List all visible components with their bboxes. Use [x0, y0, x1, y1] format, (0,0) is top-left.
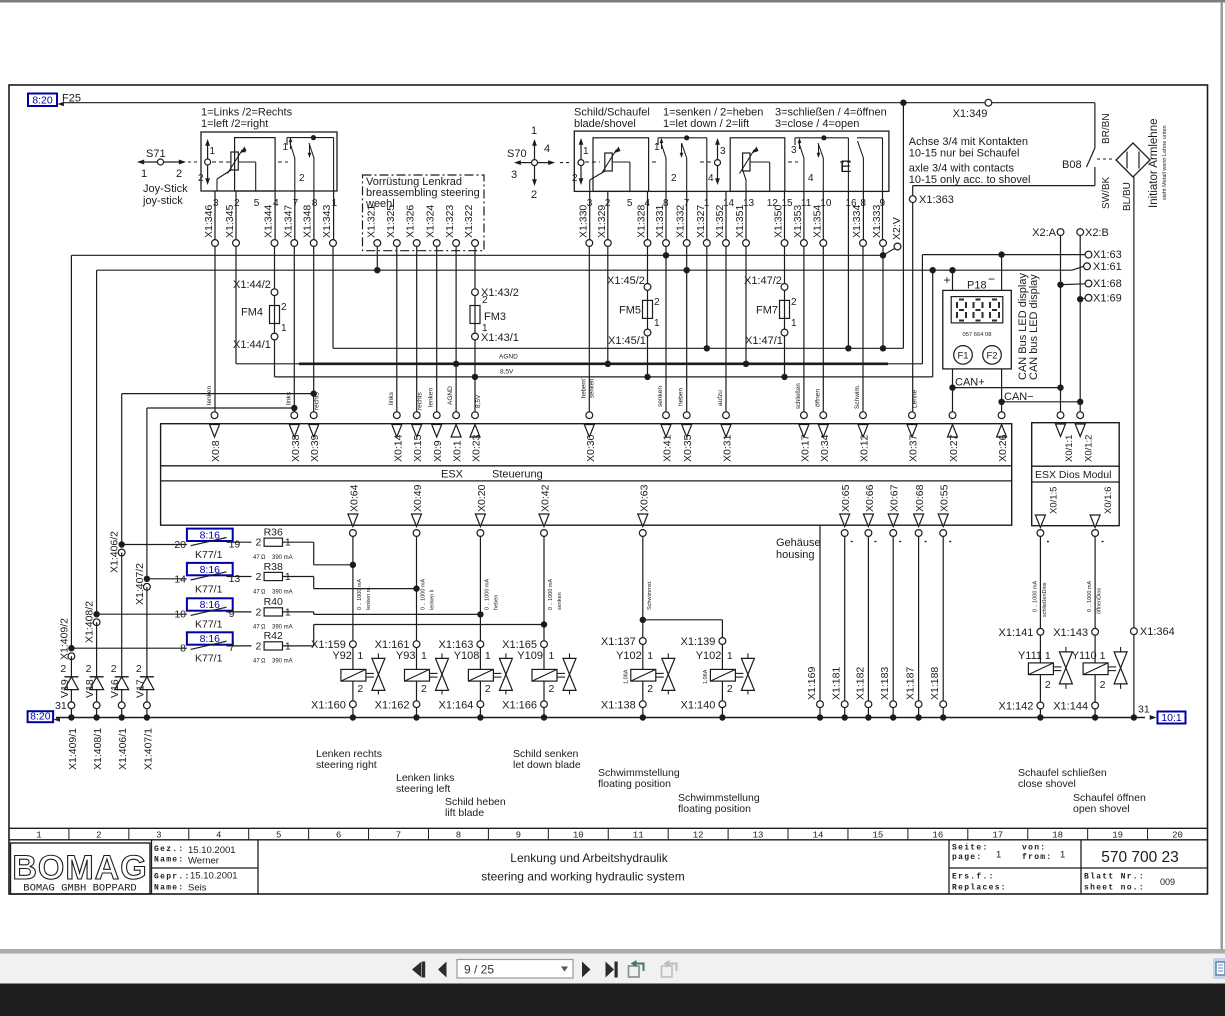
- svg-text:1: 1: [1060, 850, 1065, 861]
- svg-text:X1:326: X1:326: [405, 205, 417, 238]
- svg-text:X1:347: X1:347: [282, 205, 294, 238]
- switch block S70 box: [574, 131, 889, 191]
- svg-text:X1:187: X1:187: [905, 667, 917, 700]
- svg-text:0 .. 1000 mA: 0 .. 1000 mA: [484, 578, 490, 610]
- svg-text:X1:406/2: X1:406/2: [109, 531, 121, 573]
- S71 potentiometer sub-box: [235, 138, 276, 191]
- svg-text:X1:333: X1:333: [871, 205, 883, 238]
- connector X1:325 wire to X0:14: [393, 240, 400, 247]
- node X1:142: [1037, 702, 1044, 709]
- svg-text:20: 20: [174, 539, 186, 551]
- ground rail 31: [56, 717, 1145, 719]
- svg-text:senken: senken: [657, 386, 664, 407]
- svg-text:X1:47/1: X1:47/1: [745, 335, 783, 347]
- svg-text:X1:324: X1:324: [425, 205, 437, 238]
- svg-text:öffnenDios: öffnenDios: [1097, 588, 1103, 614]
- svg-text:X1:407/1: X1:407/1: [142, 728, 154, 770]
- connector X0:17: [801, 412, 808, 419]
- svg-text:8: 8: [180, 643, 186, 655]
- junction bus1/X0:41 wire: [663, 252, 669, 258]
- connector X0:27: [949, 412, 956, 419]
- junction AGND/X1:351: [743, 361, 749, 367]
- svg-text:19: 19: [1112, 831, 1123, 841]
- svg-text:Initiator Armlehne: Initiator Armlehne: [1148, 119, 1160, 209]
- S70 pot 1 sub-box: [593, 138, 649, 192]
- svg-text:2: 2: [1100, 679, 1106, 691]
- svg-text:senken: senken: [590, 379, 596, 398]
- connector X0:39: [310, 412, 317, 419]
- title block part number cell: [1080, 840, 1082, 868]
- svg-text:X0:12: X0:12: [859, 434, 871, 462]
- svg-text:2: 2: [256, 606, 262, 618]
- wire X2:A down to Dios: [1060, 236, 1062, 412]
- svg-text:1: 1: [531, 125, 537, 137]
- node X1:138: [639, 701, 646, 708]
- svg-text:X1:328: X1:328: [636, 205, 648, 238]
- junction links/K77 feed: [291, 405, 297, 411]
- junction 8.5V/FM3: [472, 374, 478, 380]
- svg-text:close shovel: close shovel: [1018, 778, 1076, 790]
- svg-text:X1:348: X1:348: [302, 205, 314, 238]
- option box Vorruestung Lenkrad: [363, 175, 485, 251]
- svg-text:X1:352: X1:352: [714, 205, 726, 238]
- svg-text:X0:41: X0:41: [662, 434, 674, 462]
- svg-text:1: 1: [583, 146, 589, 157]
- svg-text:lenken re.: lenken re.: [366, 585, 372, 610]
- page bottom grey separator: [0, 949, 1225, 954]
- svg-text:X1:346: X1:346: [203, 205, 215, 238]
- svg-text:19: 19: [229, 539, 241, 551]
- svg-text:X1:354: X1:354: [811, 205, 823, 238]
- svg-text:4: 4: [808, 173, 814, 184]
- svg-text:2: 2: [421, 683, 427, 695]
- fuse FM4: [274, 296, 276, 306]
- junction X1:63 line/P18 minus: [998, 251, 1004, 257]
- svg-text:X0:39: X0:39: [309, 434, 321, 462]
- node X1:160: [350, 701, 357, 708]
- wire X1:161 column from ESX: [416, 536, 418, 640]
- svg-text:009: 009: [1160, 877, 1175, 887]
- X1:63 line from AGND riser: [922, 254, 1085, 256]
- svg-text:X1:321: X1:321: [365, 205, 377, 238]
- svg-text:X1:143: X1:143: [1053, 627, 1088, 639]
- svg-text:X1:183: X1:183: [879, 667, 891, 700]
- wire switch supply rail: [333, 347, 903, 349]
- F25 arrowhead: [58, 102, 64, 106]
- title block sheet number cell: [1080, 868, 1082, 894]
- connector X0:26: [998, 412, 1005, 419]
- wire initiator down to X1:364: [1133, 177, 1135, 628]
- svg-text:X0:49: X0:49: [412, 484, 424, 512]
- svg-text:lenken li: lenken li: [430, 590, 436, 610]
- junction supply/X1:327: [704, 345, 710, 351]
- svg-text:rechts: rechts: [417, 392, 424, 410]
- node X1:161: [413, 641, 420, 648]
- node X1:162: [413, 701, 420, 708]
- connector X1:350 feeding FM7: [784, 191, 786, 239]
- node X1:349: [985, 99, 992, 106]
- svg-text:0 .. 1000 mA: 0 .. 1000 mA: [548, 578, 554, 610]
- svg-text:FM4: FM4: [241, 307, 263, 319]
- svg-text:8:20: 8:20: [30, 711, 51, 723]
- node X1:143: [1092, 628, 1099, 635]
- svg-text:X1:349: X1:349: [953, 108, 988, 120]
- svg-text:8,5V: 8,5V: [500, 369, 514, 376]
- svg-text:1=let down / 2=lift: 1=let down / 2=lift: [663, 118, 749, 130]
- wire F25 drop to switch rail: [902, 103, 904, 349]
- svg-text:R38: R38: [264, 561, 283, 573]
- svg-text:10-15 nur bei Schaufel: 10-15 nur bei Schaufel: [909, 148, 1020, 160]
- svg-text:öffnen: öffnen: [814, 389, 821, 407]
- svg-text:steering left: steering left: [396, 783, 450, 795]
- wire X0/1:5 column: [1039, 536, 1041, 628]
- toolbar page-flip icon 1: [629, 966, 640, 977]
- connector X1:329 wire to AGND: [607, 191, 609, 239]
- connector X1:351 wire to AGND: [745, 191, 747, 239]
- svg-text:X1:327: X1:327: [695, 205, 707, 238]
- svg-text:X1:409/1: X1:409/1: [67, 728, 79, 770]
- svg-text:Gepr.:: Gepr.:: [154, 873, 191, 882]
- svg-text:390 mA: 390 mA: [272, 659, 293, 665]
- node X1:69 and link to X2:B: [1085, 294, 1092, 301]
- svg-text:X0:17: X0:17: [799, 434, 811, 462]
- P18 button F2: [983, 346, 1002, 365]
- svg-text:1: 1: [1100, 650, 1106, 662]
- svg-text:2: 2: [727, 683, 733, 695]
- node X1:141: [1037, 628, 1044, 635]
- svg-text:3: 3: [511, 169, 517, 181]
- svg-text:X1:334: X1:334: [851, 205, 863, 238]
- svg-text:X0:26: X0:26: [997, 434, 1009, 462]
- S70 direction arrows 3/4: [717, 140, 719, 183]
- svg-text:X0:38: X0:38: [290, 434, 302, 462]
- svg-text:BOMAG: BOMAG: [12, 849, 147, 887]
- svg-text:2: 2: [299, 173, 305, 184]
- svg-text:3: 3: [156, 831, 161, 841]
- toolbar first-page button: [412, 962, 422, 978]
- svg-text:1: 1: [485, 650, 491, 662]
- svg-text:7: 7: [229, 642, 235, 654]
- svg-text:11: 11: [633, 831, 644, 841]
- svg-text:R40: R40: [264, 596, 283, 608]
- svg-text:31: 31: [1138, 704, 1150, 716]
- node X1:44/1: [271, 333, 278, 340]
- wire B08 to X1:363: [913, 185, 1095, 187]
- junction supply/X1:333: [880, 345, 886, 351]
- rechts feedback line to K77 row1: [122, 393, 314, 395]
- svg-text:S71: S71: [146, 148, 166, 160]
- svg-text:X1:325: X1:325: [385, 205, 397, 238]
- svg-text:Seis: Seis: [188, 883, 207, 894]
- svg-text:Y93: Y93: [396, 650, 416, 662]
- toolbar page number box: [457, 960, 573, 979]
- S71 contact common bar: [287, 137, 334, 139]
- net reference 8:20 ground box: [28, 711, 53, 722]
- svg-text:1: 1: [36, 831, 41, 841]
- svg-text:2: 2: [357, 683, 363, 695]
- display P18 box: [943, 290, 1012, 369]
- svg-text:2: 2: [671, 173, 677, 184]
- S70 direction arrows 1/2: [580, 140, 582, 183]
- svg-text:S70: S70: [507, 148, 527, 160]
- svg-text:E: E: [840, 157, 851, 176]
- S70 contacts 1/2 common: [658, 137, 707, 139]
- svg-text:Lehne: Lehne: [912, 390, 919, 408]
- svg-text:Ω: Ω: [261, 589, 266, 595]
- svg-text:X0:64: X0:64: [348, 484, 360, 512]
- svg-text:13: 13: [753, 831, 764, 841]
- svg-text:X1:329: X1:329: [596, 205, 608, 238]
- links feedback line to K77 row2: [147, 407, 294, 409]
- svg-text:8,5V: 8,5V: [475, 394, 482, 408]
- svg-text:3: 3: [791, 145, 797, 156]
- svg-text:Replaces:: Replaces:: [952, 884, 1007, 893]
- svg-text:3: 3: [720, 146, 726, 157]
- junction supply/pin16: [845, 345, 851, 351]
- svg-text:AGND: AGND: [499, 354, 518, 361]
- svg-text:R36: R36: [264, 527, 283, 539]
- svg-text:1: 1: [141, 168, 147, 180]
- fuse FM5: [647, 290, 649, 300]
- svg-text:X1:162: X1:162: [375, 700, 410, 712]
- svg-text:Name:: Name:: [154, 856, 185, 865]
- svg-text:1: 1: [996, 850, 1001, 861]
- potentiometer 1 in S70: [605, 153, 612, 171]
- svg-text:Y111: Y111: [1018, 650, 1042, 662]
- svg-text:X0:14: X0:14: [392, 434, 404, 462]
- svg-text:2: 2: [198, 173, 204, 184]
- svg-text:senken: senken: [557, 592, 563, 610]
- svg-text:X0:37: X0:37: [908, 434, 920, 462]
- connector X1:332 wire to X0:35: [686, 191, 688, 239]
- svg-text:CAN+: CAN+: [955, 377, 985, 389]
- svg-text:X1:344: X1:344: [263, 205, 275, 238]
- svg-text:X1:406/1: X1:406/1: [117, 728, 129, 770]
- svg-text:X1:323: X1:323: [444, 205, 456, 238]
- svg-text:X1:164: X1:164: [439, 700, 474, 712]
- node X1:164: [477, 701, 484, 708]
- svg-text:X1:409/2: X1:409/2: [58, 618, 70, 660]
- P18 seven-segment display: [951, 297, 1003, 323]
- svg-text:2: 2: [281, 302, 287, 313]
- svg-text:Y108: Y108: [454, 650, 480, 662]
- potentiometer 2 in S70: [743, 153, 750, 171]
- svg-text:7: 7: [396, 831, 401, 841]
- svg-text:9: 9: [229, 608, 235, 620]
- connector X1:326 wire to X0:15: [413, 240, 420, 247]
- wire X1:165 column from ESX: [543, 536, 545, 640]
- toolbar next-page button: [582, 962, 591, 978]
- toolbar prev-page button: [438, 962, 447, 978]
- wire X2:B down to Dios: [1079, 236, 1081, 412]
- wire S70 pin16 to supply rail: [847, 191, 849, 348]
- connector X2:V: [894, 243, 901, 250]
- junction rechts/K77 feed: [311, 390, 317, 396]
- svg-text:2: 2: [482, 295, 488, 306]
- svg-text:2: 2: [531, 189, 537, 201]
- connector X1:322 feeding FM3: [472, 240, 479, 247]
- svg-text:Schwim.: Schwim.: [854, 384, 861, 409]
- drawing outer frame: [9, 85, 1208, 894]
- node X1:137: [639, 638, 646, 645]
- node X1:159: [350, 641, 357, 648]
- wire P18 plus: [952, 270, 954, 290]
- svg-text:X1:63: X1:63: [1093, 249, 1122, 261]
- diode V19: [70, 656, 72, 677]
- connector X1:352 wire to X0:31: [725, 191, 727, 239]
- svg-text:X0:68: X0:68: [914, 484, 926, 512]
- svg-text:X0/1:1: X0/1:1: [1064, 435, 1075, 462]
- svg-text:X1:322: X1:322: [463, 205, 475, 238]
- title block Gez/Name cell: [151, 840, 153, 894]
- window right border: [1221, 2, 1224, 949]
- svg-text:K77/1: K77/1: [195, 653, 223, 665]
- svg-text:1: 1: [549, 650, 555, 662]
- node X1:68 and link to X2:A: [1085, 280, 1092, 287]
- svg-text:5: 5: [276, 831, 281, 841]
- dark bottom bar: [0, 984, 1225, 1016]
- svg-text:X1:61: X1:61: [1093, 261, 1122, 273]
- svg-text:2: 2: [1045, 679, 1051, 691]
- solenoid valve Y108: [479, 648, 481, 670]
- svg-text:18: 18: [1052, 831, 1063, 841]
- svg-text:schließenDios: schließenDios: [1042, 582, 1048, 617]
- svg-text:1: 1: [727, 650, 733, 662]
- svg-text:Y102: Y102: [616, 650, 642, 662]
- svg-text:steering and working hydraulic: steering and working hydraulic system: [481, 870, 684, 884]
- connector X0:41: [663, 412, 670, 419]
- svg-text:X0/1:6: X0/1:6: [1103, 487, 1114, 514]
- toolbar last-page button: [606, 962, 615, 978]
- svg-text:X0:1: X0:1: [452, 440, 464, 462]
- svg-text:Y109: Y109: [517, 650, 543, 662]
- node X1:364: [1131, 628, 1138, 635]
- svg-text:X0:63: X0:63: [638, 484, 650, 512]
- svg-text:heben: heben: [493, 595, 499, 610]
- connector X0/1:2: [1077, 412, 1084, 419]
- svg-text:sheet no.:: sheet no.:: [1084, 884, 1145, 893]
- toolbar page-flip icon 2 (disabled): [662, 966, 673, 977]
- svg-text:X0:65: X0:65: [840, 484, 852, 512]
- connector X0:38: [291, 412, 298, 419]
- svg-text:X1:331: X1:331: [654, 205, 666, 238]
- svg-text:steering right: steering right: [316, 759, 377, 771]
- node X1:166: [541, 701, 548, 708]
- svg-text:2: 2: [96, 831, 101, 841]
- svg-text:X1:47/2: X1:47/2: [744, 275, 782, 287]
- potentiometer R in S71: [231, 152, 238, 170]
- svg-text:X0/1:2: X0/1:2: [1084, 435, 1095, 462]
- solenoid valve Y102 at X1:139: [721, 644, 723, 669]
- svg-text:X1:364: X1:364: [1140, 626, 1175, 638]
- svg-text:+: +: [944, 273, 951, 287]
- svg-text:BR/BN: BR/BN: [1101, 113, 1112, 144]
- svg-text:Steuerung: Steuerung: [492, 469, 543, 481]
- wire P18 to CAN+ and X0:27: [952, 369, 954, 412]
- svg-text:F2: F2: [986, 350, 997, 361]
- wire X1:363 down to X0:37: [912, 203, 914, 412]
- wire AGND riser to X1:63 line: [921, 255, 923, 364]
- svg-text:axle 3/4 with contacts: axle 3/4 with contacts: [909, 163, 1015, 175]
- wire X1:169 housing: [819, 525, 821, 701]
- svg-text:X1:45/1: X1:45/1: [608, 335, 646, 347]
- P18 button F1: [954, 346, 973, 365]
- svg-text:von:: von:: [1022, 844, 1046, 853]
- svg-text:page:: page:: [952, 853, 983, 862]
- svg-text:Y110: Y110: [1072, 650, 1097, 662]
- connector X1:333 wire to bus and supply rail: [882, 191, 884, 239]
- solenoid valve Y110: [1094, 635, 1096, 663]
- svg-text:V18: V18: [84, 679, 96, 698]
- svg-text:X1:332: X1:332: [675, 205, 687, 238]
- svg-text:BL/BU: BL/BU: [1122, 182, 1133, 211]
- connector X1:327 wire to supply rail: [706, 191, 708, 239]
- wire X1:183: [892, 536, 894, 700]
- svg-text:5: 5: [627, 198, 633, 209]
- svg-text:X2:A: X2:A: [1032, 227, 1057, 239]
- svg-text:hebern': hebern': [581, 378, 587, 398]
- junction 8.5V/FM7: [781, 374, 787, 380]
- controller ESX Steuerung box: [161, 424, 1012, 526]
- connector X1:330 wire to X0:30: [589, 191, 591, 239]
- wire X1:159 column from ESX: [352, 536, 354, 640]
- switch block S71 box: [201, 132, 337, 191]
- connector X1:346 and wire to X0:8: [214, 191, 216, 240]
- title-block column-number strip: [9, 827, 1208, 829]
- svg-text:X1:353: X1:353: [792, 205, 804, 238]
- svg-text:X1:137: X1:137: [601, 636, 636, 648]
- svg-text:X0:9: X0:9: [432, 440, 444, 462]
- svg-text:AGND: AGND: [447, 386, 454, 405]
- relay contact K77/1 (14/13) with resistor R38: [144, 576, 150, 582]
- svg-text:Schwimmst.: Schwimmst.: [647, 580, 653, 610]
- svg-text:X1:139: X1:139: [681, 636, 716, 648]
- svg-text:Seite:: Seite:: [952, 844, 989, 853]
- svg-text:31: 31: [55, 700, 67, 712]
- svg-text:20: 20: [1172, 831, 1183, 841]
- wire X1:188: [942, 536, 944, 700]
- wire P18 to CAN- and X0:26: [1001, 369, 1003, 412]
- S70 pot 2 sub-box: [730, 138, 785, 192]
- svg-text:2: 2: [256, 537, 262, 549]
- svg-text:9 / 25: 9 / 25: [464, 963, 494, 977]
- diode V17: [146, 587, 148, 677]
- bus line 2 (8.5V distribution): [97, 269, 1072, 271]
- svg-text:sieht Metall wenn Lehne unten: sieht Metall wenn Lehne unten: [1162, 125, 1168, 200]
- junction bus2/8.5V riser: [930, 267, 936, 273]
- svg-text:X1:141: X1:141: [999, 627, 1034, 639]
- svg-text:3=schließen / 4=öffnen: 3=schließen / 4=öffnen: [775, 107, 887, 119]
- svg-text:X0/1:5: X0/1:5: [1049, 487, 1060, 514]
- connector X0:34: [820, 412, 827, 419]
- svg-text:CAN bus LED display: CAN bus LED display: [1028, 274, 1040, 380]
- svg-text:X0:8: X0:8: [210, 440, 222, 462]
- svg-text:heben: heben: [678, 388, 685, 406]
- svg-text:X1:138: X1:138: [601, 700, 636, 712]
- svg-text:X0:27: X0:27: [948, 434, 960, 462]
- wire X1:181: [844, 536, 846, 700]
- svg-text:Y92: Y92: [332, 650, 352, 662]
- svg-text:X0:55: X0:55: [939, 484, 951, 512]
- svg-text:X1:45/2: X1:45/2: [607, 275, 645, 287]
- svg-text:ESX Dios Modul: ESX Dios Modul: [1035, 469, 1111, 481]
- connector X0:8: [211, 412, 218, 419]
- svg-text:16: 16: [932, 831, 943, 841]
- net reference 8:20 F25 box: [28, 94, 57, 107]
- svg-text:0 .. 1000 mA: 0 .. 1000 mA: [1032, 580, 1038, 612]
- svg-text:FM3: FM3: [484, 311, 506, 323]
- svg-text:SW/BK: SW/BK: [1101, 176, 1112, 209]
